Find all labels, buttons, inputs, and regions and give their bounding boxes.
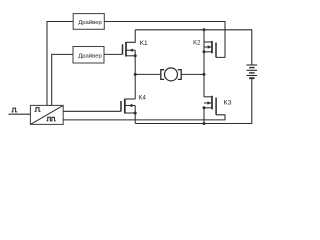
junction dot K2 drain on rail [203, 28, 206, 31]
driver U2 box [73, 47, 104, 64]
junction dot motor left node [134, 73, 137, 76]
pulse glyph double (inside U3) [47, 117, 56, 121]
wire: K2 branch vertical from rail to motor node [203, 30, 205, 75]
wire: driver U2 output to K1 gate [104, 53, 122, 55]
wire: motor left lead [135, 73, 161, 75]
driver U1 box [73, 14, 104, 30]
svg-text:K3: K3 [224, 100, 232, 107]
PWM converter U3 box [30, 105, 63, 124]
motor M armature circle [165, 68, 178, 81]
transistor K3 [203, 96, 217, 115]
battery GB1 [247, 65, 258, 78]
junction dot motor right node [203, 73, 206, 76]
wire: K1 source down to K4 drain [134, 56, 136, 99]
wire: top drain rail to battery plus [135, 30, 252, 65]
transistor K1 [123, 30, 137, 58]
svg-text:K1: K1 [140, 40, 148, 47]
svg-text:Драйвер: Драйвер [78, 52, 102, 59]
wire: motor right lead [181, 73, 204, 75]
wire: driver U2 input [52, 54, 73, 105]
wire: K4 source to bottom rail [134, 113, 136, 124]
wire: motor right node down to K3 drain [203, 74, 205, 96]
wire: driver U1 input [47, 22, 73, 106]
transistor K2 [203, 41, 217, 57]
motor M brush right [178, 70, 181, 80]
wire: converter output 1 to K4 gate [63, 110, 121, 112]
motor M brush left [161, 70, 164, 80]
input pulse glyph [12, 108, 18, 112]
wire: K3 source to bottom rail [203, 108, 205, 124]
junction dot K3 source on bottom rail [203, 122, 206, 125]
svg-text:K4: K4 [139, 96, 147, 102]
wire: converter output 2 to K3 gate [63, 115, 225, 120]
transistor K4 [121, 99, 137, 115]
svg-text:Драйвер: Драйвер [78, 19, 102, 26]
wire: driver U1 output to K2 gate [104, 22, 225, 58]
wire: input to converter [9, 113, 31, 115]
pulse glyph single (inside U3) [35, 108, 41, 112]
wire: bottom rail to battery minus [135, 78, 252, 123]
svg-text:K2: K2 [193, 40, 201, 46]
